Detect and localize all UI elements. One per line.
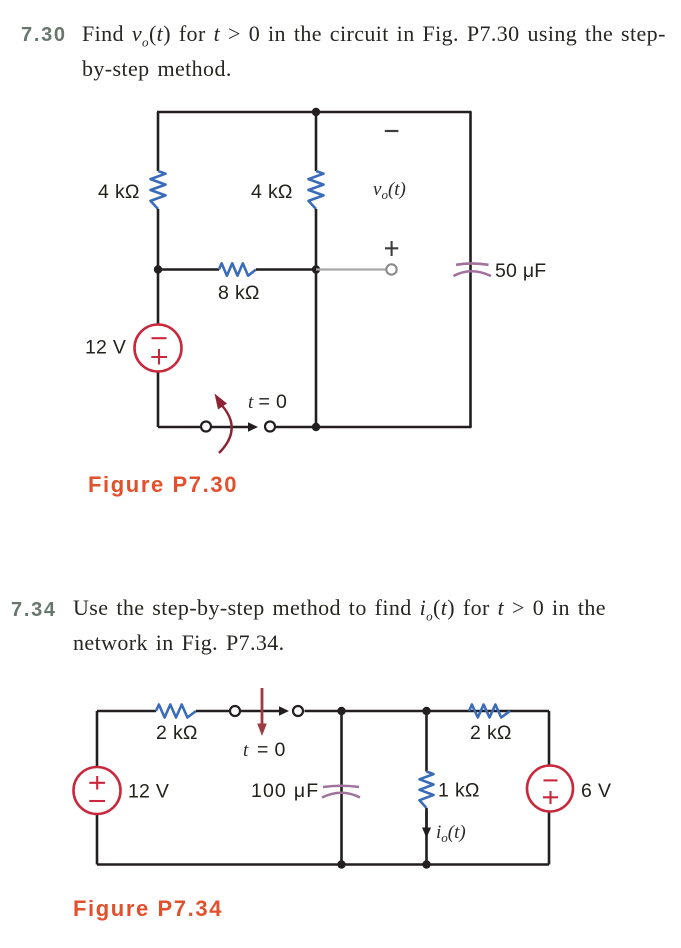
node: junction dot mid-center xyxy=(312,265,320,273)
wire: top horizontal xyxy=(157,111,472,114)
wire: gray output lead xyxy=(316,268,386,270)
node: junction dot bottom capacitor xyxy=(337,860,345,868)
svg-text:12 V: 12 V xyxy=(85,337,126,359)
wire: top segment resistor to switch xyxy=(196,710,230,713)
wire: bottom horizontal left of switch xyxy=(158,426,201,429)
capacitor C1 50 uF xyxy=(454,263,492,276)
switch SW2 (opening at t=0) xyxy=(230,706,303,716)
wire: 1k branch upper xyxy=(425,711,428,772)
resistor R4 2 kOhm (top-left) xyxy=(156,705,196,718)
wire: left vertical middle (R1 to 12V source) xyxy=(157,209,160,325)
svg-text:8 kΩ: 8 kΩ xyxy=(218,282,260,304)
resistor R5 1 kOhm (vertical) xyxy=(420,772,434,809)
current arrow io(t) xyxy=(422,810,431,838)
wire: middle vertical lower xyxy=(315,209,318,427)
label minus sign (top of vo) xyxy=(385,130,399,132)
svg-text:t: t xyxy=(248,392,254,413)
svg-text:= 0: = 0 xyxy=(259,391,288,413)
wire: left vertical upper xyxy=(96,711,99,767)
caption Figure P7.30 xyxy=(88,472,238,498)
svg-text:io(t): io(t) xyxy=(436,822,466,845)
wire: capacitor branch vertical xyxy=(340,711,343,865)
node: junction dot mid-left xyxy=(154,265,162,273)
node: junction dot bottom 1k branch xyxy=(422,860,430,868)
node: open output terminal xyxy=(386,264,396,274)
voltage source V3 6 V xyxy=(527,766,573,812)
wire: bottom horizontal xyxy=(97,863,549,866)
resistor R1 4 kOhm (left) xyxy=(151,171,166,209)
svg-text:50 μF: 50 μF xyxy=(495,260,546,282)
node: junction dot bottom middle xyxy=(312,423,320,431)
wire: left vertical upper (top node to 4k resistor) xyxy=(157,112,160,171)
switch action arrow (red, downward) xyxy=(257,688,267,736)
svg-text:2 kΩ: 2 kΩ xyxy=(470,722,512,744)
svg-text:4 kΩ: 4 kΩ xyxy=(98,181,140,203)
wire: right vertical lower xyxy=(548,812,551,865)
svg-text:t: t xyxy=(243,740,249,761)
wire: middle vertical upper xyxy=(315,112,318,171)
svg-text:4 kΩ: 4 kΩ xyxy=(251,181,293,203)
problem 7.30 statement xyxy=(82,21,666,82)
wire: right vertical (with capacitor) xyxy=(469,112,472,427)
switch action arrow (red curved) xyxy=(215,394,232,454)
resistor R3 8 kOhm (horizontal) xyxy=(219,263,256,275)
voltage source V2 12 V xyxy=(74,767,121,814)
wire: right vertical upper xyxy=(548,711,551,765)
resistor R6 2 kOhm (top-right) xyxy=(469,705,510,718)
problem number 7.34 xyxy=(11,599,57,622)
svg-text:1 kΩ: 1 kΩ xyxy=(438,780,480,802)
svg-text:100 μF: 100 μF xyxy=(251,780,319,802)
capacitor C2 100 uF xyxy=(322,786,360,798)
wire: left vertical lower (source to bottom) xyxy=(157,372,160,428)
wire: top-left segment xyxy=(97,710,156,713)
switch SW1 (opening at t=0) xyxy=(201,422,275,432)
resistor R2 4 kOhm (middle) xyxy=(309,171,324,209)
svg-text:vo(t): vo(t) xyxy=(373,179,406,202)
svg-text:6 V: 6 V xyxy=(581,780,611,802)
voltage source V1 12 V xyxy=(135,325,182,372)
svg-text:= 0: = 0 xyxy=(257,739,286,761)
node: junction dot top capacitor xyxy=(337,707,345,715)
label plus sign (above terminal) xyxy=(385,241,398,256)
wire: bottom horizontal right of switch xyxy=(276,426,472,429)
node: junction dot top 1k branch xyxy=(422,707,430,715)
caption Figure P7.34 xyxy=(73,896,223,922)
wire: 1k branch lower xyxy=(425,808,428,865)
node: junction dot top middle xyxy=(312,108,320,116)
wire: top segment switch to capacitor node xyxy=(305,710,550,713)
wire: left vertical lower xyxy=(96,814,99,865)
wire: middle horizontal right segment xyxy=(256,268,316,271)
svg-text:12 V: 12 V xyxy=(128,781,169,803)
problem 7.34 statement xyxy=(73,595,606,656)
problem number 7.30 xyxy=(21,24,67,47)
wire: middle horizontal left segment xyxy=(158,268,219,271)
svg-text:2 kΩ: 2 kΩ xyxy=(156,722,198,744)
